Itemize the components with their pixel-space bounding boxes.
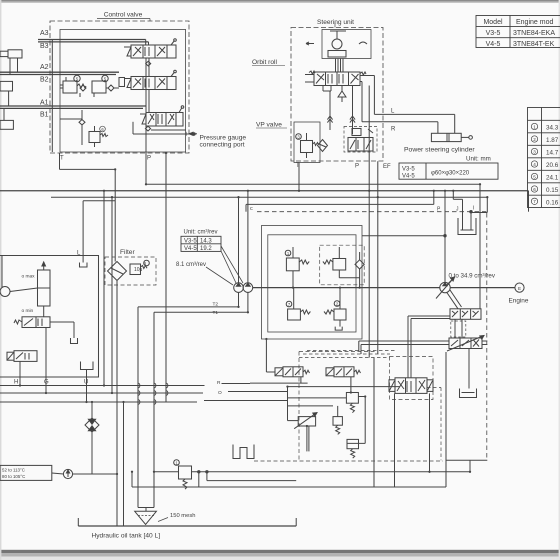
svg-text:19.2: 19.2 (200, 246, 212, 252)
svg-text:2: 2 (533, 137, 536, 142)
svg-text:7: 7 (533, 199, 536, 204)
svg-text:34.3: 34.3 (546, 125, 559, 132)
svg-text:A1: A1 (40, 100, 49, 107)
svg-text:A3: A3 (40, 30, 49, 37)
svg-text:Engine mod: Engine mod (516, 19, 553, 26)
svg-text:I: I (473, 206, 474, 212)
svg-text:Control valve: Control valve (104, 12, 143, 19)
svg-text:8.1 cm³/rev: 8.1 cm³/rev (176, 262, 206, 268)
svg-text:B3: B3 (40, 43, 49, 50)
svg-text:o max: o max (22, 275, 36, 280)
svg-text:14.3: 14.3 (200, 239, 212, 245)
svg-text:EF: EF (383, 164, 391, 170)
svg-text:E: E (518, 286, 521, 291)
svg-text:φ60×φ30×220: φ60×φ30×220 (431, 171, 470, 177)
svg-text:0.15: 0.15 (546, 187, 559, 194)
svg-text:Unit: cm³/rev: Unit: cm³/rev (184, 230, 218, 236)
svg-text:A2: A2 (40, 64, 49, 71)
svg-text:1.87: 1.87 (546, 137, 559, 144)
svg-text:G: G (44, 380, 49, 386)
svg-text:P: P (355, 164, 359, 170)
svg-text:0 to 34.9 cm³/rev: 0 to 34.9 cm³/rev (449, 273, 496, 280)
svg-text:connecting port: connecting port (200, 142, 245, 149)
svg-text:3TNE84-EKA: 3TNE84-EKA (513, 30, 555, 37)
svg-text:V4-5: V4-5 (402, 174, 415, 180)
svg-text:U: U (84, 380, 88, 386)
svg-text:10μ: 10μ (134, 267, 143, 273)
svg-text:Engine: Engine (509, 298, 529, 305)
svg-text:1: 1 (533, 124, 536, 129)
svg-text:P: P (147, 156, 151, 162)
svg-text:Power steering cylinder: Power steering cylinder (404, 147, 475, 154)
svg-text:Pressure gauge: Pressure gauge (200, 135, 247, 142)
svg-text:3: 3 (533, 149, 536, 154)
svg-text:VP valve: VP valve (256, 122, 282, 129)
svg-text:52 to 113°C: 52 to 113°C (2, 468, 25, 473)
svg-text:150 mesh: 150 mesh (170, 513, 195, 519)
svg-text:V3-5: V3-5 (402, 167, 415, 173)
svg-text:4: 4 (533, 162, 536, 167)
svg-text:14.7: 14.7 (546, 150, 559, 157)
svg-text:V3-5: V3-5 (486, 30, 501, 37)
svg-text:5: 5 (533, 174, 536, 179)
svg-text:3TNE84T-EK: 3TNE84T-EK (513, 41, 555, 48)
svg-text:T2: T2 (213, 302, 219, 308)
svg-text:Hydraulic oil tank [40 L]: Hydraulic oil tank [40 L] (92, 533, 161, 540)
svg-text:c: c (250, 206, 253, 212)
svg-text:B2: B2 (40, 77, 49, 84)
svg-text:Filter: Filter (120, 249, 135, 256)
svg-text:Steering unit: Steering unit (317, 19, 354, 26)
svg-text:Model: Model (483, 19, 503, 26)
svg-text:O: O (218, 390, 222, 396)
svg-text:R: R (391, 127, 396, 133)
svg-text:T1: T1 (213, 310, 219, 316)
svg-text:20.6: 20.6 (546, 162, 559, 169)
svg-text:V4-5: V4-5 (184, 246, 197, 252)
svg-text:T: T (296, 163, 300, 169)
svg-text:B1: B1 (40, 112, 49, 119)
svg-text:o min: o min (22, 308, 34, 314)
svg-text:R: R (217, 380, 221, 386)
svg-text:V3-5: V3-5 (184, 239, 197, 245)
svg-text:Orbit roll: Orbit roll (252, 59, 277, 66)
svg-text:T: T (60, 156, 64, 162)
svg-text:24.1: 24.1 (546, 175, 559, 182)
svg-text:80 to 105°C: 80 to 105°C (2, 474, 25, 479)
svg-text:Unit: mm: Unit: mm (466, 156, 491, 163)
svg-text:6: 6 (533, 187, 536, 192)
svg-text:H: H (14, 380, 18, 386)
svg-text:0.16: 0.16 (546, 199, 559, 206)
svg-text:V4-5: V4-5 (486, 41, 501, 48)
